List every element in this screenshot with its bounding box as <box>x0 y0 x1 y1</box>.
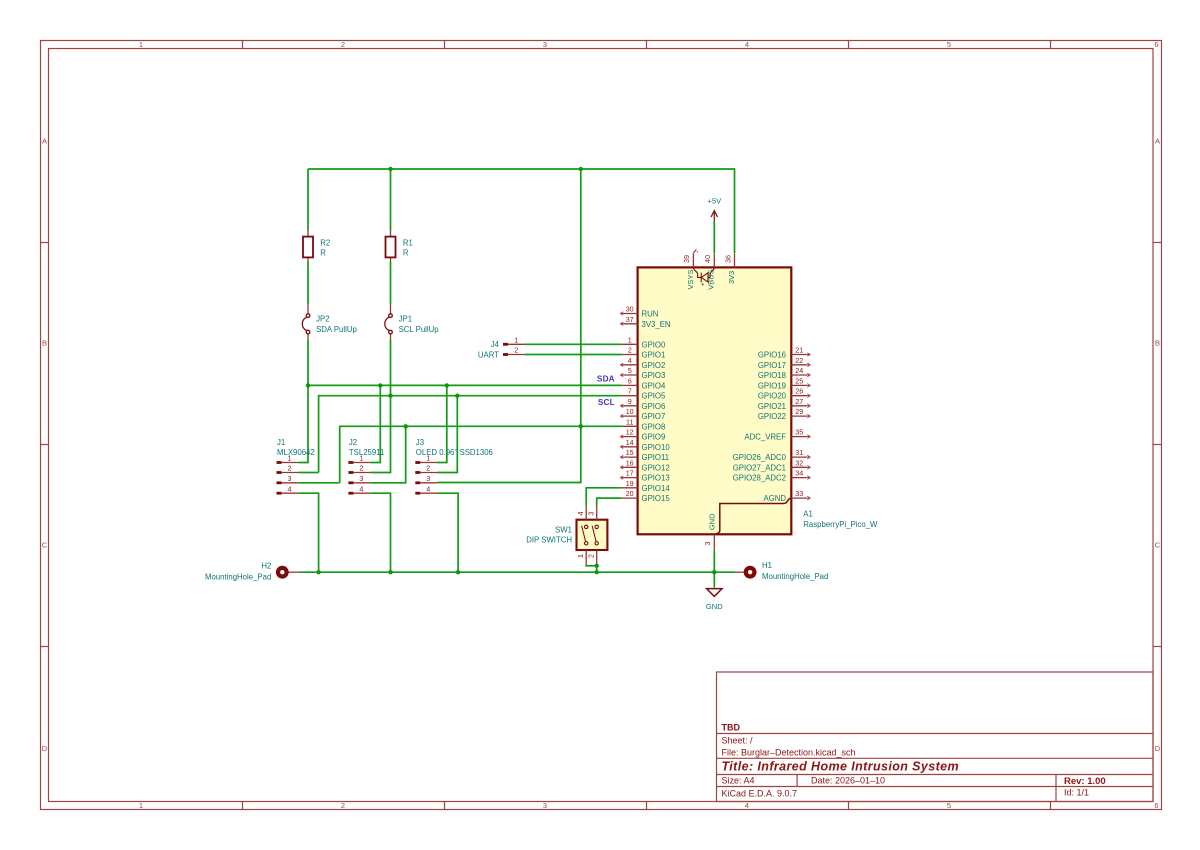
svg-text:MLX90642: MLX90642 <box>277 448 315 457</box>
wire J4 pin2 to GPIO1 <box>525 354 622 356</box>
svg-text:20: 20 <box>626 489 634 498</box>
svg-text:1: 1 <box>288 454 292 463</box>
title block outline <box>717 672 1154 802</box>
svg-text:SCL PullUp: SCL PullUp <box>399 325 440 334</box>
svg-text:2: 2 <box>587 554 596 558</box>
wire SW1 pin1 to pin2 link <box>586 565 597 566</box>
svg-text:TBD: TBD <box>722 723 741 733</box>
svg-text:1: 1 <box>139 801 143 810</box>
wire J3 pin2 to SCL <box>437 396 457 473</box>
power symbol +5V <box>707 196 722 221</box>
svg-text:3: 3 <box>543 801 547 810</box>
wire J1 pin2 to SCL <box>298 472 318 474</box>
svg-text:2: 2 <box>628 346 632 355</box>
svg-text:GPIO13: GPIO13 <box>642 474 670 483</box>
svg-text:JP2: JP2 <box>316 315 329 324</box>
svg-text:12: 12 <box>626 428 634 437</box>
svg-text:UART: UART <box>478 350 499 359</box>
svg-text:File: Burglar–Detection.kicad_: File: Burglar–Detection.kicad_sch <box>722 748 856 758</box>
wire R2 to JP2 <box>307 262 309 305</box>
svg-text:2: 2 <box>514 346 518 355</box>
svg-text:TSL25911: TSL25911 <box>349 448 384 457</box>
svg-text:GPIO12: GPIO12 <box>642 463 670 472</box>
svg-text:39: 39 <box>682 255 691 263</box>
svg-text:J3: J3 <box>416 438 424 447</box>
A1 internal VSYS-VBUS diode <box>693 267 714 285</box>
wire J1 pin3 stub <box>298 482 339 484</box>
svg-text:GPIO18: GPIO18 <box>758 371 786 380</box>
svg-text:GPIO21: GPIO21 <box>758 402 786 411</box>
svg-text:B: B <box>42 339 47 348</box>
wire VBUS +5V drop <box>713 221 715 253</box>
svg-text:25: 25 <box>795 376 803 385</box>
svg-text:ADC_VREF: ADC_VREF <box>744 433 786 442</box>
connector J2 <box>348 438 384 495</box>
svg-text:33: 33 <box>795 489 803 498</box>
svg-text:GPIO27_ADC1: GPIO27_ADC1 <box>733 463 786 472</box>
wire R2 branch top <box>307 169 309 231</box>
jumper JP2 <box>302 304 357 340</box>
A1 bottom pin GND <box>703 513 717 551</box>
svg-text:GPIO22: GPIO22 <box>758 412 786 421</box>
resistor R2 <box>303 231 330 262</box>
svg-text:1: 1 <box>139 40 143 49</box>
svg-text:16: 16 <box>626 458 634 467</box>
svg-text:1: 1 <box>628 335 632 344</box>
wire J1 pin4 to ground rail <box>298 493 318 572</box>
wire GPIO14 pin19 to SW1 pin4 <box>586 488 622 506</box>
svg-text:24: 24 <box>795 366 803 375</box>
svg-text:H2: H2 <box>261 562 271 571</box>
svg-text:29: 29 <box>795 407 803 416</box>
switch SW1 DIP SWITCH <box>526 506 607 565</box>
svg-text:SDA PullUp: SDA PullUp <box>316 325 357 334</box>
svg-text:4: 4 <box>288 484 292 493</box>
wire GPIO8 pin 11 horizontal <box>340 426 622 483</box>
svg-text:9: 9 <box>628 397 632 406</box>
svg-text:Id: 1/1: Id: 1/1 <box>1064 788 1089 798</box>
svg-text:3: 3 <box>359 474 363 483</box>
svg-text:B: B <box>1155 339 1160 348</box>
svg-text:14: 14 <box>626 438 634 447</box>
svg-text:D: D <box>42 744 48 753</box>
svg-text:3: 3 <box>288 474 292 483</box>
junction dots <box>306 167 717 575</box>
svg-text:17: 17 <box>626 469 634 478</box>
svg-text:GPIO20: GPIO20 <box>758 392 787 401</box>
wire SDA horizontal to GPIO4 pin 6 <box>308 384 622 386</box>
svg-text:37: 37 <box>626 315 634 324</box>
svg-text:3: 3 <box>703 542 712 546</box>
svg-text:15: 15 <box>626 448 634 457</box>
wire J4 pin1 to GPIO0 <box>525 343 622 345</box>
mounting hole H1 <box>735 561 828 581</box>
op-amp U1 equivalent: MCU A1 RaspberryPi_Pico_W body <box>638 267 792 534</box>
svg-text:6: 6 <box>1154 801 1158 810</box>
svg-text:GPIO10: GPIO10 <box>642 443 671 452</box>
svg-text:3: 3 <box>543 40 547 49</box>
svg-text:3: 3 <box>426 474 430 483</box>
resistor R1 <box>386 231 413 262</box>
svg-text:3V3: 3V3 <box>727 271 736 284</box>
wire J3 pin1 to SDA <box>437 385 447 462</box>
svg-text:5: 5 <box>628 366 632 375</box>
svg-text:GPIO3: GPIO3 <box>642 371 666 380</box>
svg-text:6: 6 <box>1154 40 1158 49</box>
svg-text:R2: R2 <box>320 238 330 247</box>
wire GPIO15 pin20 to SW1 pin3 <box>597 498 622 506</box>
svg-text:GPIO4: GPIO4 <box>642 381 666 390</box>
connector J1 <box>277 438 315 495</box>
svg-text:32: 32 <box>795 458 803 467</box>
svg-text:J1: J1 <box>277 438 285 447</box>
svg-text:GPIO19: GPIO19 <box>758 381 786 390</box>
svg-text:GPIO28_ADC2: GPIO28_ADC2 <box>733 474 786 483</box>
svg-text:AGND: AGND <box>763 494 786 503</box>
svg-text:4: 4 <box>426 484 430 493</box>
svg-text:5: 5 <box>947 40 951 49</box>
wire J2 pin1 to SDA <box>370 385 380 462</box>
wire 3V3 vertical drop to J3 pin 3 <box>437 169 581 483</box>
wire top 3V3 rail <box>308 169 735 253</box>
svg-text:GPIO1: GPIO1 <box>642 351 666 360</box>
mounting hole H2 <box>205 562 298 582</box>
svg-text:27: 27 <box>795 397 803 406</box>
wire pico GND pin down to GND symbol <box>713 551 715 588</box>
power symbol GND <box>706 589 723 612</box>
svg-text:J4: J4 <box>491 340 500 349</box>
svg-text:KiCad E.D.A. 9.0.7: KiCad E.D.A. 9.0.7 <box>722 789 798 799</box>
svg-text:3V3_EN: 3V3_EN <box>642 320 671 329</box>
svg-text:1: 1 <box>514 336 518 345</box>
svg-text:+5V: +5V <box>707 196 722 205</box>
svg-text:VBUS: VBUS <box>707 269 716 289</box>
wire J2 pin3 to GPIO8 net <box>370 426 406 483</box>
jumper JP1 <box>385 304 439 340</box>
wire ground rail horizontal <box>298 571 735 573</box>
svg-text:C: C <box>1155 541 1161 550</box>
svg-text:34: 34 <box>795 469 803 478</box>
svg-text:35: 35 <box>795 428 803 437</box>
svg-text:GPIO0: GPIO0 <box>642 340 666 349</box>
svg-text:A1: A1 <box>803 509 813 518</box>
svg-text:GPIO17: GPIO17 <box>758 361 786 370</box>
svg-text:GPIO5: GPIO5 <box>642 392 666 401</box>
svg-text:SDA: SDA <box>597 375 615 384</box>
wire R1 to JP1 <box>390 262 392 305</box>
svg-text:5: 5 <box>947 801 951 810</box>
svg-text:R1: R1 <box>403 238 413 247</box>
A1 left side pins <box>620 305 670 504</box>
svg-text:GPIO15: GPIO15 <box>642 494 671 503</box>
svg-text:30: 30 <box>626 305 634 314</box>
svg-text:GPIO2: GPIO2 <box>642 361 666 370</box>
svg-text:RaspberryPi_Pico_W: RaspberryPi_Pico_W <box>803 520 878 529</box>
svg-text:SCL: SCL <box>598 398 615 407</box>
svg-text:GPIO6: GPIO6 <box>642 402 666 411</box>
svg-text:R: R <box>403 249 409 258</box>
svg-text:Sheet: /: Sheet: / <box>722 736 754 746</box>
svg-text:2: 2 <box>288 464 292 473</box>
svg-text:GND: GND <box>708 513 717 530</box>
svg-text:3: 3 <box>587 512 596 516</box>
svg-text:2: 2 <box>341 40 345 49</box>
svg-text:SW1: SW1 <box>555 525 572 534</box>
A1 top pins VSYS VBUS 3V3 <box>682 249 736 289</box>
svg-text:GPIO14: GPIO14 <box>642 484 671 493</box>
svg-text:4: 4 <box>745 801 749 810</box>
svg-text:JP1: JP1 <box>399 315 412 324</box>
svg-text:R: R <box>320 249 326 258</box>
svg-text:Size: A4: Size: A4 <box>722 776 755 786</box>
svg-text:GPIO16: GPIO16 <box>758 351 786 360</box>
wire J2 pin2 to SCL <box>370 396 390 473</box>
svg-text:21: 21 <box>795 346 803 355</box>
svg-text:GPIO11: GPIO11 <box>642 453 670 462</box>
svg-text:GPIO26_ADC0: GPIO26_ADC0 <box>733 453 787 462</box>
svg-text:H1: H1 <box>762 561 772 570</box>
wire JP1 to SCL net <box>390 340 392 396</box>
svg-text:7: 7 <box>628 387 632 396</box>
svg-text:36: 36 <box>723 255 732 263</box>
svg-text:GPIO9: GPIO9 <box>642 433 666 442</box>
svg-text:GND: GND <box>706 602 723 611</box>
wire J3 pin4 to ground rail <box>437 493 458 572</box>
svg-text:DIP SWITCH: DIP SWITCH <box>526 536 572 545</box>
svg-text:Date: 2026–01–10: Date: 2026–01–10 <box>811 776 885 786</box>
svg-text:1: 1 <box>426 454 430 463</box>
svg-text:J2: J2 <box>349 438 357 447</box>
svg-text:22: 22 <box>795 356 803 365</box>
A1 internal AGND/GND separation line <box>716 498 791 534</box>
svg-text:D: D <box>1155 744 1161 753</box>
svg-text:A: A <box>42 137 47 146</box>
svg-text:11: 11 <box>626 417 633 426</box>
svg-text:40: 40 <box>703 255 712 263</box>
svg-text:31: 31 <box>795 448 803 457</box>
A1 right side pins <box>733 346 811 504</box>
svg-text:4: 4 <box>745 40 749 49</box>
svg-text:1: 1 <box>359 454 363 463</box>
svg-text:VSYS: VSYS <box>686 269 695 289</box>
connector J4 UART <box>478 336 525 360</box>
svg-text:2: 2 <box>426 464 430 473</box>
wire R1 branch top <box>390 169 392 231</box>
wire J2 pin4 to ground rail <box>370 493 390 572</box>
svg-text:2: 2 <box>359 464 363 473</box>
svg-text:4: 4 <box>628 356 632 365</box>
svg-text:10: 10 <box>626 407 634 416</box>
svg-text:1: 1 <box>576 554 585 558</box>
svg-text:Title: Infrared Home Intrusion: Title: Infrared Home Intrusion System <box>722 760 960 774</box>
svg-text:Rev: 1.00: Rev: 1.00 <box>1064 776 1106 787</box>
svg-text:A: A <box>1155 137 1160 146</box>
svg-text:MountingHole_Pad: MountingHole_Pad <box>205 573 271 582</box>
svg-text:19: 19 <box>626 479 634 488</box>
wire J1 pin1 to SDA junction <box>298 385 308 462</box>
svg-text:GPIO8: GPIO8 <box>642 422 666 431</box>
connector J3 <box>415 438 493 495</box>
wire SCL horizontal to GPIO5 pin 7 <box>319 396 622 473</box>
svg-text:MountingHole_Pad: MountingHole_Pad <box>762 572 828 581</box>
svg-text:4: 4 <box>576 512 585 516</box>
svg-text:C: C <box>42 541 48 550</box>
wire JP2 to SDA net <box>307 340 309 385</box>
svg-text:GPIO7: GPIO7 <box>642 412 666 421</box>
svg-text:RUN: RUN <box>642 310 659 319</box>
svg-text:26: 26 <box>795 387 803 396</box>
svg-text:4: 4 <box>359 484 363 493</box>
svg-text:6: 6 <box>628 376 632 385</box>
svg-text:2: 2 <box>341 801 345 810</box>
wire SW1 pin2 down to rail <box>596 565 598 573</box>
